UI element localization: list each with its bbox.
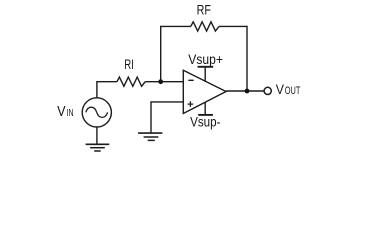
ground (non-inverting input) bbox=[138, 133, 162, 140]
wire: source bottom to ground bbox=[96, 127, 98, 144]
wire: non-inverting input to ground bbox=[151, 102, 183, 133]
terminal VOUT open circle bbox=[264, 87, 271, 94]
pin Vsup+ bbox=[198, 67, 214, 82]
op-amp plus sign bbox=[188, 101, 194, 107]
svg-text:IN: IN bbox=[67, 107, 74, 119]
svg-text:OUT: OUT bbox=[285, 85, 301, 97]
ground (source) bbox=[86, 144, 110, 151]
svg-text:Vsup+: Vsup+ bbox=[188, 51, 223, 67]
source VIN circle bbox=[82, 98, 111, 127]
pin Vsup- bbox=[198, 102, 213, 115]
label VIN bbox=[57, 104, 73, 120]
op-amp U1 triangle bbox=[183, 70, 226, 113]
resistor RF bbox=[191, 22, 219, 31]
svg-text:RF: RF bbox=[197, 2, 211, 18]
node: feedback junction dot bbox=[158, 79, 163, 84]
wire: source top to resistor RI bbox=[97, 82, 117, 98]
wire: feedback top left segment bbox=[160, 25, 191, 27]
source sine wave bbox=[86, 107, 108, 117]
svg-text:V: V bbox=[276, 81, 285, 97]
wire: feedback top right segment bbox=[219, 25, 247, 27]
wire: op-amp output bbox=[226, 90, 264, 92]
wire: feedback right vertical bbox=[246, 26, 248, 91]
node: output junction dot bbox=[245, 89, 250, 94]
wire: feedback left vertical bbox=[160, 26, 162, 82]
svg-text:RI: RI bbox=[124, 56, 134, 72]
op-amp minus sign bbox=[188, 79, 193, 81]
svg-text:V: V bbox=[57, 104, 66, 120]
svg-text:Vsup-: Vsup- bbox=[190, 114, 221, 130]
wire: RI to op-amp inverting input bbox=[145, 81, 183, 83]
resistor RI bbox=[117, 77, 145, 86]
label VOUT bbox=[276, 81, 301, 97]
